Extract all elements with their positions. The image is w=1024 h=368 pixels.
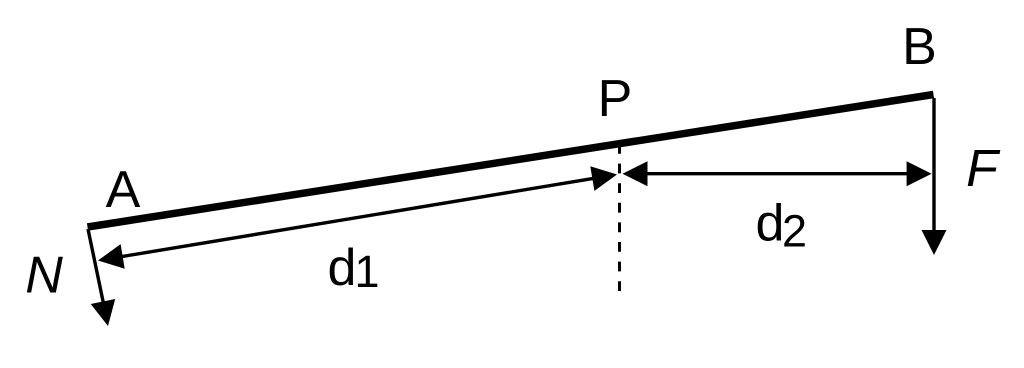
force arrow F (head) xyxy=(922,230,947,255)
dimension arrow d1 (left head) xyxy=(98,244,125,269)
force arrow N (head) xyxy=(91,299,116,326)
dimension arrow d2 (line) xyxy=(642,172,912,175)
svg-text:N: N xyxy=(25,247,63,305)
dimension arrow d2 (left head) xyxy=(623,161,648,186)
svg-text:1: 1 xyxy=(355,246,380,297)
svg-text:2: 2 xyxy=(782,206,807,257)
svg-text:P: P xyxy=(598,70,633,128)
svg-text:d: d xyxy=(756,195,785,253)
force arrow F (line) xyxy=(932,98,935,234)
svg-text:F: F xyxy=(966,140,1001,198)
dimension arrow d1 (line) xyxy=(118,178,597,257)
dimension arrow d2 (right head) xyxy=(907,161,932,186)
svg-text:B: B xyxy=(902,18,937,76)
dashed pivot line at P xyxy=(618,144,621,293)
svg-text:d: d xyxy=(328,239,357,297)
dimension arrow d1 (right head) xyxy=(590,166,617,191)
svg-text:A: A xyxy=(106,161,141,219)
lever beam AB xyxy=(88,95,934,228)
force arrow N (line) xyxy=(88,229,104,306)
